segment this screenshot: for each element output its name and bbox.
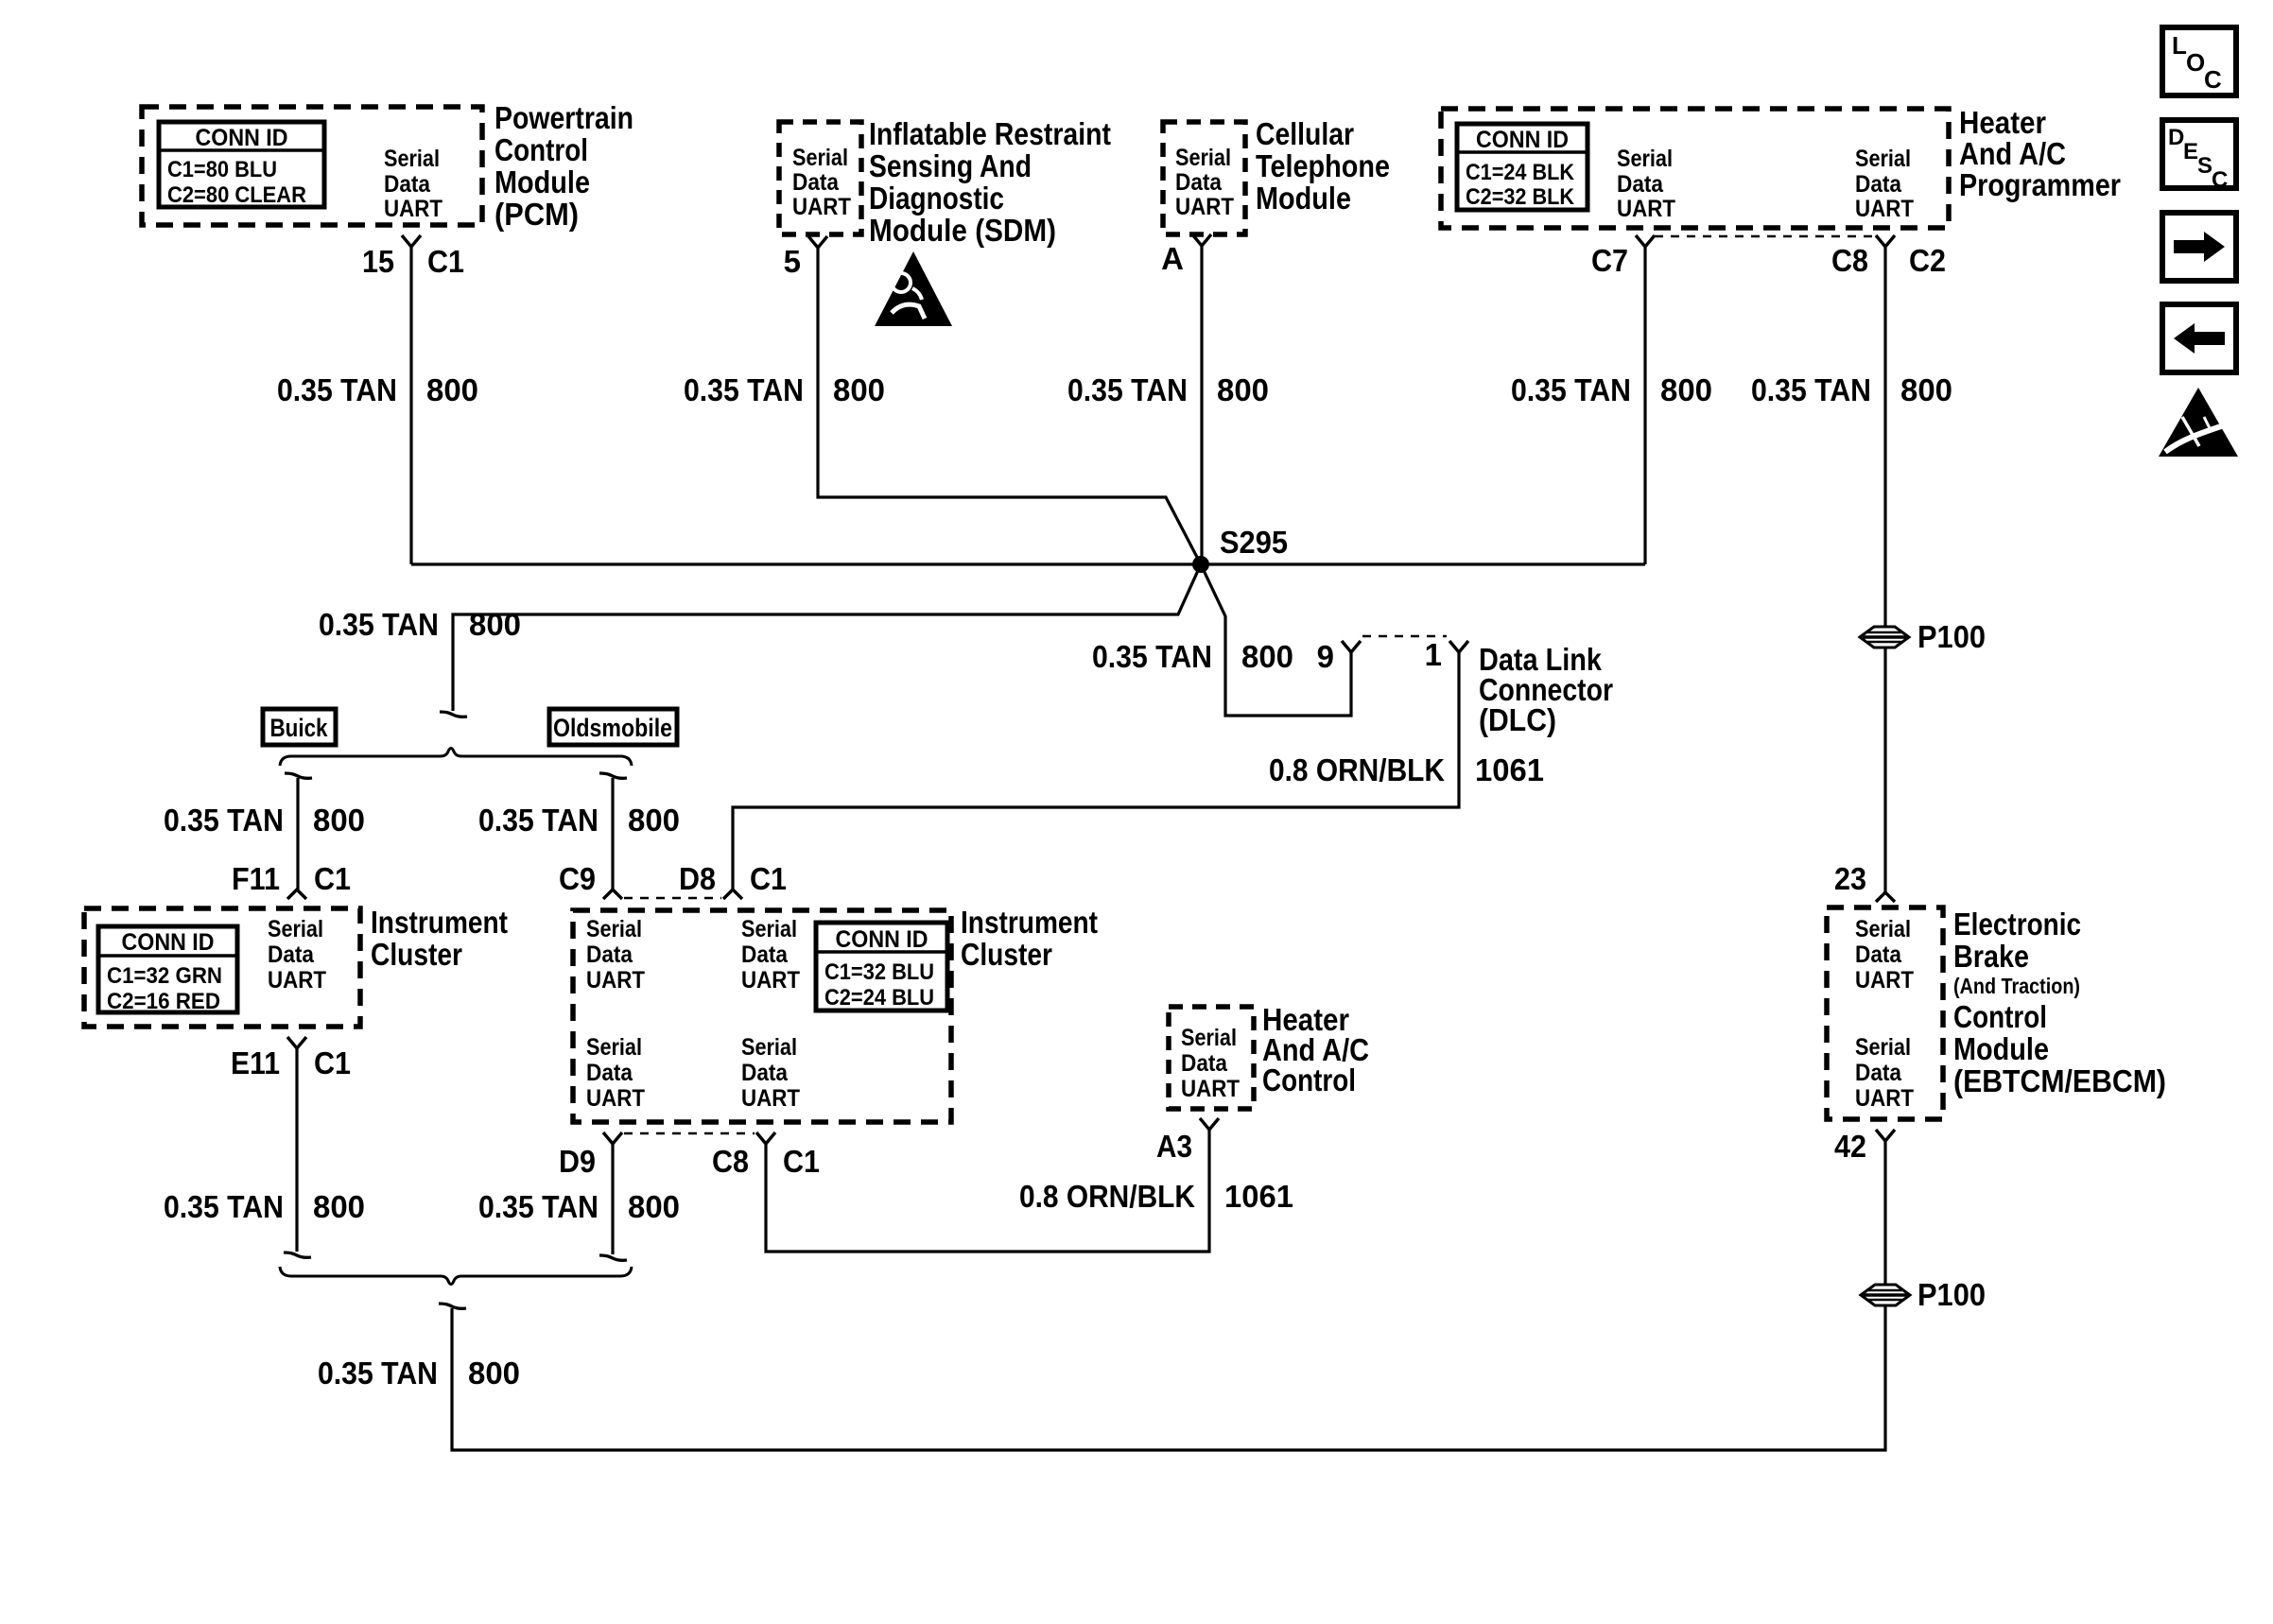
wire Buick branch <box>285 773 312 778</box>
splice S295 <box>1192 556 1209 573</box>
svg-text:P100: P100 <box>1917 1277 1986 1312</box>
svg-text:Electronic: Electronic <box>1953 907 2081 942</box>
EBTCM pin 42 connector <box>1876 1130 1895 1141</box>
svg-text:D8: D8 <box>679 861 716 896</box>
svg-text:0.8 ORN/BLK: 0.8 ORN/BLK <box>1269 752 1445 787</box>
svg-text:C2=16 RED: C2=16 RED <box>107 989 220 1014</box>
svg-text:UART: UART <box>1175 194 1234 220</box>
svg-text:C8: C8 <box>1831 243 1868 278</box>
svg-text:800: 800 <box>1900 372 1952 407</box>
DESC button <box>2162 120 2236 188</box>
HVAC Control pin A3 connector <box>1200 1118 1219 1130</box>
svg-text:Data: Data <box>741 942 789 968</box>
svg-text:800: 800 <box>628 1189 680 1224</box>
svg-text:CONN ID: CONN ID <box>1476 127 1569 153</box>
HVAC Programmer pin C8 C2 connector <box>1876 235 1895 247</box>
module Instrument Cluster Oldsmobile box (dashed) <box>573 910 951 1122</box>
svg-text:800: 800 <box>1241 639 1293 674</box>
wire Oldsmobile branch <box>599 773 627 778</box>
svg-text:C1: C1 <box>314 1045 351 1080</box>
svg-text:Serial: Serial <box>741 1034 797 1061</box>
airbag warning triangle symbol <box>875 251 952 326</box>
variant brace upper <box>280 749 632 767</box>
svg-text:Powertrain: Powertrain <box>495 100 633 135</box>
wire C8 C2 drop to EBTCM pin 23 <box>1883 247 1886 892</box>
svg-text:C7: C7 <box>1591 243 1628 278</box>
module PCM box (dashed) <box>142 107 482 225</box>
svg-text:Serial: Serial <box>1617 146 1673 172</box>
svg-text:A3: A3 <box>1156 1129 1192 1164</box>
svg-text:Module (SDM): Module (SDM) <box>869 213 1056 248</box>
IC Olds pin C9 connector <box>603 890 622 899</box>
wire C8 to HVAC control A3 <box>766 1130 1209 1252</box>
IC Olds top connector link dashed line <box>624 897 721 900</box>
svg-text:Control: Control <box>495 132 588 167</box>
svg-text:Programmer: Programmer <box>1959 167 2121 202</box>
module EBTCM box (dashed) <box>1827 907 1943 1119</box>
svg-text:D: D <box>2168 125 2184 150</box>
svg-text:Serial: Serial <box>1855 1034 1911 1061</box>
svg-text:And A/C: And A/C <box>1959 136 2066 171</box>
svg-text:C1=24 BLK: C1=24 BLK <box>1466 160 1575 185</box>
svg-text:Serial: Serial <box>1855 146 1911 172</box>
svg-text:800: 800 <box>1660 372 1712 407</box>
wire bottom feed curl <box>439 1304 466 1308</box>
svg-text:Data: Data <box>1175 169 1223 196</box>
svg-text:Data: Data <box>586 1060 633 1086</box>
svg-text:1061: 1061 <box>1224 1179 1293 1214</box>
svg-text:Diagnostic: Diagnostic <box>869 181 1004 216</box>
svg-text:Serial: Serial <box>1181 1025 1237 1051</box>
svg-text:C1: C1 <box>427 244 464 279</box>
svg-text:(EBTCM/EBCM): (EBTCM/EBCM) <box>1953 1063 2166 1098</box>
svg-text:Data: Data <box>1855 1060 1902 1086</box>
svg-text:UART: UART <box>384 196 442 222</box>
IC Olds bottom connector link dashed line <box>624 1132 755 1135</box>
svg-text:800: 800 <box>468 1356 520 1391</box>
svg-text:800: 800 <box>833 372 885 407</box>
svg-text:Data: Data <box>1617 171 1664 198</box>
svg-text:Serial: Serial <box>586 916 642 942</box>
svg-text:C2: C2 <box>1909 243 1946 278</box>
svg-text:0.35 TAN: 0.35 TAN <box>478 803 599 838</box>
svg-text:L: L <box>2172 31 2187 60</box>
wire D9 drop <box>611 1144 614 1254</box>
svg-text:C1=32 GRN: C1=32 GRN <box>107 963 222 989</box>
svg-text:CONN ID: CONN ID <box>836 926 928 953</box>
DLC connector dashed link <box>1362 635 1447 638</box>
svg-text:15: 15 <box>362 244 394 279</box>
svg-text:C2=32 BLK: C2=32 BLK <box>1466 184 1575 210</box>
svg-text:S: S <box>2197 153 2212 179</box>
svg-text:0.8 ORN/BLK: 0.8 ORN/BLK <box>1019 1179 1195 1214</box>
svg-text:C1: C1 <box>314 861 351 896</box>
svg-text:UART: UART <box>741 967 800 993</box>
svg-text:0.35 TAN: 0.35 TAN <box>684 372 804 407</box>
IC Olds CONN ID table <box>816 923 947 1011</box>
previous arrow button <box>2162 304 2236 372</box>
wire EBTCM pin 42 to bottom bus <box>452 1141 1885 1450</box>
svg-text:Module: Module <box>1256 181 1351 216</box>
svg-text:Data: Data <box>586 942 633 968</box>
svg-text:0.35 TAN: 0.35 TAN <box>1511 372 1631 407</box>
DLC pin 1 connector <box>1449 641 1468 652</box>
LOC button <box>2162 27 2236 95</box>
svg-text:UART: UART <box>1617 196 1675 222</box>
wire E11 drop <box>295 1048 298 1252</box>
Cellular pin A connector <box>1192 234 1211 246</box>
svg-text:Module: Module <box>495 164 590 199</box>
svg-text:Buick: Buick <box>270 714 329 742</box>
svg-text:Data: Data <box>384 171 431 198</box>
svg-text:0.35 TAN: 0.35 TAN <box>164 1189 284 1224</box>
svg-text:0.35 TAN: 0.35 TAN <box>277 372 397 407</box>
svg-text:Cluster: Cluster <box>961 937 1052 972</box>
svg-text:Cellular: Cellular <box>1256 116 1354 151</box>
wire S295 to DLC pin 9 <box>1201 564 1351 716</box>
svg-text:Serial: Serial <box>1175 145 1231 171</box>
svg-text:C: C <box>2204 65 2222 94</box>
svg-text:Heater: Heater <box>1959 105 2046 140</box>
wire PCM pin15 drop <box>409 247 412 564</box>
HVAC Programmer CONN ID table <box>1457 124 1588 210</box>
EBTCM pin 23 connector <box>1876 892 1895 902</box>
svg-text:P100: P100 <box>1917 619 1986 654</box>
HVAC Programmer connector link dashed line <box>1655 235 1876 238</box>
svg-text:UART: UART <box>741 1085 800 1112</box>
svg-text:UART: UART <box>1855 196 1914 222</box>
svg-text:(DLC): (DLC) <box>1479 702 1556 737</box>
svg-text:(PCM): (PCM) <box>495 197 579 232</box>
IC Buick pin E11 C1 connector <box>287 1037 306 1048</box>
svg-text:E: E <box>2183 139 2198 164</box>
IC Olds pin D8 C1 connector <box>723 890 742 899</box>
svg-text:UART: UART <box>586 967 645 993</box>
svg-text:1: 1 <box>1425 637 1442 672</box>
svg-text:Inflatable Restraint: Inflatable Restraint <box>869 116 1111 151</box>
Buick variant label box <box>263 709 336 745</box>
IC Olds pin C8 C1 connector <box>756 1132 775 1144</box>
svg-text:Module: Module <box>1953 1031 2049 1066</box>
svg-text:UART: UART <box>1855 1085 1914 1112</box>
svg-text:800: 800 <box>469 607 521 642</box>
svg-text:Data: Data <box>792 169 840 196</box>
svg-text:(And Traction): (And Traction) <box>1953 974 2080 998</box>
svg-text:0.35 TAN: 0.35 TAN <box>164 803 284 838</box>
svg-text:Data: Data <box>741 1060 789 1086</box>
PCM CONN ID table <box>159 122 324 207</box>
svg-text:C8: C8 <box>712 1144 749 1179</box>
svg-text:1061: 1061 <box>1475 752 1544 787</box>
ESD sensitive symbol <box>2159 388 2238 457</box>
svg-text:0.35 TAN: 0.35 TAN <box>319 607 439 642</box>
svg-text:Data: Data <box>1181 1050 1228 1077</box>
pass-through connector P100 lower <box>1861 1285 1910 1305</box>
pass-through connector P100 upper <box>1860 627 1909 648</box>
svg-text:Data: Data <box>1855 171 1902 198</box>
module HVAC Programmer box (dashed) <box>1441 109 1949 228</box>
svg-text:0.35 TAN: 0.35 TAN <box>1751 372 1871 407</box>
SDM pin 5 connector <box>808 236 827 248</box>
module SDM box (dashed) <box>779 122 861 234</box>
svg-text:C: C <box>2212 167 2228 193</box>
wire Cellular drop <box>1200 246 1203 564</box>
svg-text:9: 9 <box>1317 639 1334 674</box>
svg-text:C1=80 BLU: C1=80 BLU <box>167 157 277 182</box>
variant brace lower <box>280 1267 632 1285</box>
svg-text:Sensing And: Sensing And <box>869 148 1032 183</box>
svg-text:Control: Control <box>1262 1063 1356 1097</box>
svg-text:UART: UART <box>1855 967 1914 993</box>
svg-text:800: 800 <box>628 803 680 838</box>
svg-text:0.35 TAN: 0.35 TAN <box>1092 639 1212 674</box>
svg-text:UART: UART <box>586 1085 645 1112</box>
svg-text:5: 5 <box>784 244 801 279</box>
svg-text:C1: C1 <box>783 1144 820 1179</box>
svg-text:D9: D9 <box>559 1144 596 1179</box>
svg-text:Brake: Brake <box>1953 939 2029 974</box>
svg-text:CONN ID: CONN ID <box>122 929 215 956</box>
IC Buick CONN ID table <box>98 926 237 1012</box>
wire S295 to variant splice <box>453 564 1201 711</box>
svg-text:Control: Control <box>1953 999 2047 1034</box>
svg-text:Data: Data <box>1855 942 1902 968</box>
wire DLC pin1 to instrument cluster D8 <box>733 652 1459 890</box>
IC Olds pin D9 connector <box>603 1132 622 1144</box>
wire SDM drop and jog to S295 <box>818 248 1201 564</box>
svg-text:C2=24 BLU: C2=24 BLU <box>824 985 934 1011</box>
next arrow button <box>2162 213 2236 281</box>
svg-text:CONN ID: CONN ID <box>196 125 288 151</box>
svg-text:C1=32 BLU: C1=32 BLU <box>824 959 934 985</box>
svg-text:0.35 TAN: 0.35 TAN <box>318 1356 438 1391</box>
svg-text:Instrument: Instrument <box>961 905 1098 940</box>
Oldsmobile variant label box <box>549 709 677 745</box>
svg-text:C1: C1 <box>750 861 787 896</box>
svg-text:800: 800 <box>426 372 478 407</box>
wire serial data bus <box>411 562 1645 565</box>
svg-text:C2=80 CLEAR: C2=80 CLEAR <box>167 182 306 208</box>
module Instrument Cluster Buick box (dashed) <box>84 908 360 1027</box>
svg-text:UART: UART <box>1181 1076 1240 1102</box>
svg-text:Serial: Serial <box>268 916 323 942</box>
module Cellular Telephone box (dashed) <box>1163 122 1245 234</box>
svg-text:Serial: Serial <box>1855 916 1911 942</box>
HVAC Programmer pin C7 connector <box>1636 235 1655 247</box>
svg-text:Serial: Serial <box>792 145 848 171</box>
svg-text:23: 23 <box>1834 861 1866 896</box>
DLC pin 9 connector <box>1342 641 1361 652</box>
svg-text:Telephone: Telephone <box>1256 148 1390 183</box>
svg-text:F11: F11 <box>232 861 280 896</box>
svg-text:Cluster: Cluster <box>371 937 462 972</box>
svg-text:O: O <box>2186 48 2205 77</box>
svg-text:UART: UART <box>268 967 326 993</box>
PCM pin 15 C1 connector <box>402 235 421 247</box>
svg-text:Serial: Serial <box>586 1034 642 1061</box>
svg-text:0.35 TAN: 0.35 TAN <box>478 1189 599 1224</box>
module HVAC Control box (dashed) <box>1169 1007 1254 1109</box>
svg-text:S295: S295 <box>1220 525 1288 560</box>
svg-text:800: 800 <box>313 1189 365 1224</box>
svg-text:A: A <box>1161 241 1184 276</box>
svg-text:Instrument: Instrument <box>371 905 508 940</box>
svg-text:C9: C9 <box>559 861 596 896</box>
svg-text:Oldsmobile: Oldsmobile <box>553 714 672 742</box>
svg-text:Serial: Serial <box>384 146 440 172</box>
svg-text:42: 42 <box>1834 1129 1866 1164</box>
svg-text:800: 800 <box>1217 372 1269 407</box>
svg-text:Data: Data <box>268 942 315 968</box>
wire C7 drop <box>1643 247 1646 564</box>
svg-text:0.35 TAN: 0.35 TAN <box>1067 372 1188 407</box>
IC Buick pin F11 C1 connector <box>287 890 306 899</box>
svg-text:800: 800 <box>313 803 365 838</box>
svg-text:Serial: Serial <box>741 916 797 942</box>
svg-text:UART: UART <box>792 194 851 220</box>
svg-text:E11: E11 <box>231 1045 280 1080</box>
